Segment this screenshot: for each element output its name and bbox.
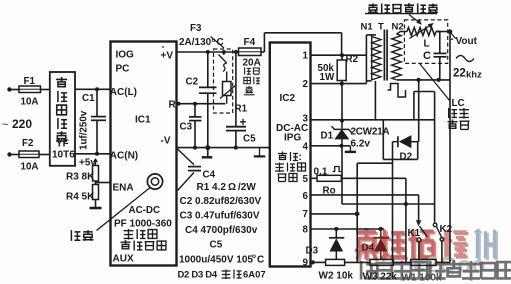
- svg-text:6: 6: [303, 191, 309, 202]
- svg-text:C: C: [257, 255, 264, 266]
- +V top link wire over IC2: [263, 33, 265, 52]
- capacitor C4 with diagonals: [177, 149, 194, 165]
- svg-text:1uf/250v: 1uf/250v: [79, 110, 90, 150]
- ground under pin4: [349, 146, 351, 151]
- svg-text:1000u/450V 105: 1000u/450V 105: [179, 255, 253, 266]
- switch K1: [416, 220, 421, 226]
- svg-text:R3 8K: R3 8K: [66, 172, 95, 183]
- svg-text:D1: D1: [321, 131, 334, 142]
- svg-text:6A07: 6A07: [243, 270, 266, 281]
- svg-text:Ω: Ω: [228, 182, 236, 193]
- svg-text:D2: D2: [400, 152, 413, 163]
- svg-text:YF: YF: [56, 139, 69, 150]
- D2 loop box: [382, 120, 384, 160]
- svg-text:22: 22: [453, 68, 466, 80]
- small ground right of C5: [259, 148, 261, 156]
- resistor R4: [93, 185, 99, 200]
- svg-text:C3 0.47ufuf/630V: C3 0.47ufuf/630V: [180, 211, 260, 222]
- transformer core: [383, 30, 385, 81]
- svg-text:4: 4: [303, 141, 309, 152]
- svg-text:R1 4.2: R1 4.2: [197, 182, 227, 193]
- ultrasonic transducer title: [368, 3, 438, 13]
- svg-text:IC1: IC1: [135, 115, 151, 126]
- svg-text:C5: C5: [243, 134, 256, 145]
- -V wire: [177, 147, 270, 149]
- svg-text:W3 22k: W3 22k: [363, 272, 398, 283]
- F3/R1 dashed thermal box: [214, 49, 233, 113]
- svg-text:W1 100k: W1 100k: [402, 273, 442, 284]
- watermark gray brand slogan: [361, 260, 511, 281]
- link wire y163: [357, 162, 392, 164]
- svg-text:khz: khz: [466, 70, 482, 81]
- capacitor C (resonant): [436, 31, 440, 33]
- svg-text:AC-DC: AC-DC: [129, 205, 161, 216]
- N1 link verticals: [365, 35, 367, 84]
- resistor R3: [93, 166, 99, 182]
- pin4 wire: [311, 145, 351, 147]
- diode D2: [393, 141, 399, 143]
- F3 element: [222, 50, 226, 54]
- svg-text::: :: [299, 152, 302, 163]
- pin1 wire: [311, 54, 367, 56]
- svg-text:C4: C4: [203, 170, 216, 181]
- svg-text:C2: C2: [186, 77, 199, 88]
- svg-text:6.2v: 6.2v: [351, 139, 371, 150]
- svg-text:2: 2: [303, 79, 309, 90]
- svg-text:2A/130: 2A/130: [179, 37, 212, 48]
- wire filter to IC1 AC(N): [75, 153, 111, 155]
- svg-text:R2: R2: [346, 54, 359, 65]
- transformer-to-D2 vertical: [418, 80, 420, 142]
- svg-text:8: 8: [303, 225, 309, 236]
- svg-text:10T6: 10T6: [52, 150, 75, 161]
- svg-text:C4 4700pf/630v: C4 4700pf/630v: [185, 225, 258, 236]
- svg-text:10A: 10A: [21, 97, 39, 108]
- Ro output line: [341, 177, 406, 179]
- ENA wire: [95, 181, 97, 185]
- svg-text:D4: D4: [362, 243, 375, 254]
- pin8 wire: [311, 228, 385, 230]
- ground under R4: [95, 200, 97, 208]
- potentiometer W1: [411, 259, 436, 265]
- svg-text:ENA: ENA: [113, 183, 134, 194]
- D2 cathode drop wire: [392, 142, 394, 263]
- svg-text:o: o: [252, 253, 256, 260]
- sine symbol: [456, 56, 474, 62]
- potentiometer W2: [326, 259, 345, 265]
- diode D4 (under red watermark): [380, 229, 382, 238]
- N2 top wire to L: [397, 32, 408, 35]
- svg-text:AUX: AUX: [113, 254, 134, 265]
- lower link wire y204: [342, 203, 435, 205]
- svg-text:-V: -V: [161, 136, 171, 147]
- R pin wire: [177, 103, 226, 105]
- svg-text:C: C: [423, 50, 431, 62]
- AC input terminal bottom: [7, 152, 11, 156]
- svg-text:C3: C3: [180, 122, 193, 133]
- pin9 / pot row wire: [311, 261, 326, 263]
- variable inductor L: [407, 28, 436, 36]
- fuse F2: [12, 154, 20, 156]
- fuse F1: [12, 89, 20, 91]
- vertical from pin4 down: [341, 146, 343, 204]
- svg-text:PC: PC: [116, 64, 130, 75]
- potentiometer W3: [370, 259, 393, 265]
- square wave symbol: [388, 84, 406, 98]
- svg-text:F1: F1: [24, 76, 36, 87]
- svg-text:Vout: Vout: [456, 36, 478, 47]
- power line filter box: [50, 72, 75, 166]
- svg-text:1: 1: [303, 51, 309, 62]
- svg-text:AC(N): AC(N): [110, 151, 138, 162]
- AC input terminal top: [7, 87, 11, 91]
- svg-text:F4: F4: [244, 37, 256, 48]
- zener D1 2CW21A: [340, 118, 344, 122]
- svg-text:10A: 10A: [21, 162, 39, 173]
- svg-text:D2 D3 D4: D2 D3 D4: [178, 270, 218, 281]
- svg-text:-: -: [162, 42, 165, 52]
- DC-AC module IC2: [270, 43, 311, 267]
- switch K2: [433, 223, 437, 227]
- svg-text:IOG: IOG: [116, 50, 135, 61]
- svg-text:0.1: 0.1: [314, 167, 328, 178]
- pin7 wire: [311, 213, 360, 215]
- +V wire: [177, 51, 239, 53]
- resistor R2: [341, 55, 343, 60]
- svg-text:LC: LC: [452, 98, 465, 109]
- svg-text:9: 9: [303, 258, 309, 269]
- svg-text:1W: 1W: [320, 72, 335, 83]
- pin3 wire long: [311, 119, 435, 121]
- chassis terminal circle: [147, 174, 162, 189]
- diode D3: [335, 229, 337, 238]
- svg-text:IC2: IC2: [280, 93, 296, 104]
- LC resonant leader: [420, 64, 450, 101]
- svg-text:.: .: [451, 31, 454, 43]
- AC-DC module IC1: [111, 42, 177, 266]
- watermark red brand text: [355, 228, 496, 261]
- L-loop wires: [414, 91, 435, 93]
- svg-text:7: 7: [303, 209, 309, 220]
- capacitor C3: [193, 102, 197, 106]
- svg-text:5: 5: [303, 174, 309, 185]
- svg-text:N1: N1: [361, 22, 374, 33]
- svg-text:/2W: /2W: [238, 182, 256, 193]
- capacitor C1: [95, 87, 99, 91]
- F3 leader line: [211, 37, 225, 49]
- svg-text:PF 1000-360: PF 1000-360: [114, 219, 172, 230]
- svg-text:R: R: [169, 100, 177, 111]
- svg-text:W2 10k: W2 10k: [319, 271, 354, 282]
- transformer bottom wire: [397, 79, 450, 81]
- svg-text:AC(L): AC(L): [110, 87, 137, 98]
- svg-text:C2 0.82uf82/630V: C2 0.82uf82/630V: [180, 196, 262, 207]
- pin2 wire: [311, 83, 367, 85]
- svg-text:220: 220: [12, 117, 32, 131]
- pin6 wire to K1: [311, 194, 419, 196]
- ground on -V: [205, 145, 210, 150]
- capacitor C2: [206, 50, 210, 54]
- Vout label: [451, 33, 455, 38]
- wire filter to IC1 AC(L): [75, 88, 111, 90]
- svg-text:F2: F2: [22, 138, 34, 149]
- svg-text:IPG: IPG: [284, 133, 301, 144]
- LC dashed box: [404, 20, 447, 64]
- svg-text:C5: C5: [210, 240, 223, 251]
- svg-text:F3: F3: [190, 23, 202, 34]
- chassis leader line: [97, 188, 150, 231]
- svg-text:+V: +V: [161, 51, 174, 62]
- right rail: [449, 32, 451, 263]
- capacitor C5 electrolytic: [234, 50, 238, 54]
- svg-text:+5v: +5v: [79, 158, 96, 169]
- resistor R1 (in series): [223, 82, 232, 96]
- title leader arrow: [409, 15, 421, 24]
- svg-text:L: L: [424, 39, 430, 50]
- svg-text:T: T: [378, 22, 384, 33]
- vertical pin7 to pot row: [356, 163, 358, 262]
- svg-text:R4 5K: R4 5K: [66, 192, 95, 203]
- svg-text:D3: D3: [306, 246, 319, 257]
- svg-text:20A: 20A: [243, 58, 261, 69]
- output node: [436, 31, 450, 33]
- svg-text:C1: C1: [82, 93, 95, 104]
- svg-text:~: ~: [2, 119, 8, 131]
- svg-text:K1: K1: [408, 228, 421, 239]
- svg-text:3: 3: [303, 114, 309, 125]
- pin5 resistor Ro 0.1: [311, 177, 318, 179]
